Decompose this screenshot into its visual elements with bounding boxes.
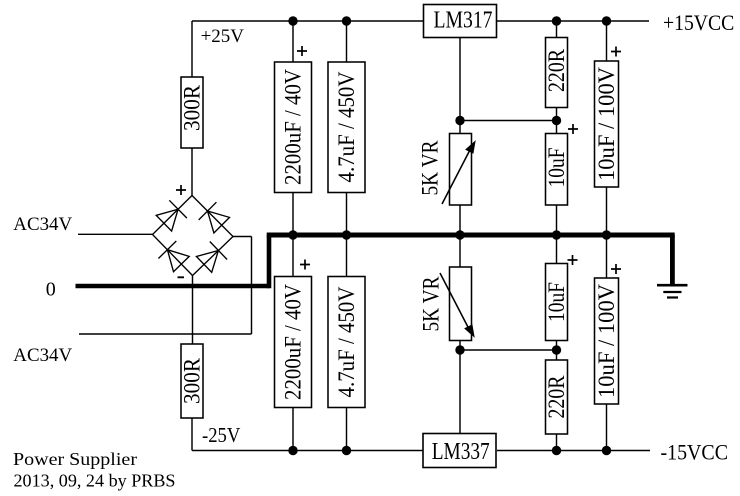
capacitor 10uF/100V (bottom) [594,278,619,404]
svg-text:10uF / 100V: 10uF / 100V [594,67,619,181]
svg-text:-15VCC: -15VCC [661,440,729,465]
capacitor 10uF (bottom) [544,264,569,341]
svg-text:220R: 220R [544,375,569,419]
junction dot top rail at 2200uF [288,16,297,25]
wire AC34V upper input to bridge left vertex [78,233,153,235]
svg-text:+15VCC: +15VCC [663,10,734,35]
wire bottom rail -25V to LM337 input [192,450,423,452]
wire corner down to lower AC line [251,237,253,335]
wire lower node to lower 10uF node [460,349,557,351]
bridge - polarity mark [178,276,185,278]
polarity + of bottom 10uF/100V [611,264,621,274]
svg-text:LM317: LM317 [434,8,493,34]
junction dot bottom rail at 10uF/100V [602,446,611,455]
wire thick riser from 0V line to ground bus [267,235,272,288]
wire thick ground bus [267,233,675,238]
wire lower 10uF top lead to 0V bus [556,238,558,264]
svg-text:5K VR: 5K VR [418,140,443,196]
junction dot upper 220R/10uF node [552,116,561,125]
svg-text:4.7uF / 450V: 4.7uF / 450V [334,71,359,182]
wire top rail LM317 output to +15VCC [497,20,649,22]
wire bottom rail LM337 output to -15VCC [497,450,650,452]
wire 4.7uF/450V bottom lead to 0V bus [346,193,348,234]
resistor 220R (top) [544,38,569,108]
ground symbol stem [670,235,675,284]
wire thick 0V center-tap line [76,284,270,289]
wire 2200uF/40V top lead [292,21,294,62]
junction dot top rail at 4.7uF [342,16,351,25]
wire lower 4.7uF/450V bottom lead [346,408,348,451]
polarity + of top 10uF [568,124,578,134]
ground symbol bar 3 [667,296,678,298]
svg-text:AC34V: AC34V [13,345,72,366]
svg-text:10uF / 100V: 10uF / 100V [594,284,619,398]
wire 300R top lead [191,21,193,77]
svg-text:300R: 300R [180,357,205,404]
junction dot bus at 10uF [552,230,561,239]
wire 10uF bottom to 0V bus [556,205,558,233]
IC LM317 regulator [424,5,497,38]
wire 4.7uF/450V top lead [346,21,348,62]
polarity + of bottom 10uF [568,255,578,265]
capacitor 2200uF/40V (bottom) [275,277,312,408]
junction dot bottom rail at 2200uF [288,446,297,455]
junction dot top rail at 220R [552,16,561,25]
wire ADJ node to 220R/10uF node [460,120,557,122]
wire lower 4.7uF/450V top lead to 0V bus [346,238,348,277]
wire 10uF/100V top lead [606,21,608,61]
junction dot bus at 10uF/100V [602,230,611,239]
capacitor 10uF/100V (top) [594,61,619,187]
bridge diode D4 (- to right AC) [196,242,227,273]
junction dot lower 10uF/220R node [552,345,561,354]
svg-text:10uF: 10uF [544,148,569,188]
polarity + of top 2200uF [297,46,307,56]
wire lower 2200uF/40V top lead to 0V bus [292,238,294,277]
ground symbol bar 1 [657,284,688,287]
wire lower 300R bottom lead to -25V rail [191,418,193,451]
wire top rail +25V from 300R column to LM317 input [192,20,423,22]
svg-text:LM337: LM337 [432,439,490,465]
wire lower 10uF bottom to lower 220R top through node [556,341,558,361]
wire lower 2200uF/40V bottom lead [292,408,294,451]
resistor 300R (top) [180,77,205,148]
svg-text:5K VR: 5K VR [419,276,444,332]
junction dot bottom rail at 220R [552,446,561,455]
capacitor 2200uF/40V (top) [275,62,312,193]
junction dot ADJ node lower left [455,345,464,354]
svg-text:2200uF / 40V: 2200uF / 40V [281,284,306,400]
junction dot bus at 4.7uF [342,230,351,239]
bridge diode D3 (- to left AC) [158,241,189,272]
junction dot top rail at 10uF/100V [602,16,611,25]
junction dot bus at 5K VR [455,230,464,239]
ground symbol bar 2 [663,291,681,293]
wire LM317 ADJ pin down to node [459,38,461,121]
wire lower 5K VR bottom to node [459,341,461,351]
svg-text:2013, 09, 24 by PRBS: 2013, 09, 24 by PRBS [14,471,176,491]
svg-text:2200uF / 40V: 2200uF / 40V [281,69,306,185]
capacitor 4.7uF/450V (bottom) [328,277,365,408]
wire 300R bottom lead to bridge + vertex [191,148,193,196]
svg-text:10uF: 10uF [544,282,569,322]
bridge rectifier diamond outline [153,196,234,276]
polarity + of bottom 2200uF [300,260,310,270]
resistor 300R (bottom) [180,344,205,418]
wire 10uF/100V bottom lead to 0V bus [606,187,608,233]
resistor 220R (bottom) [544,360,569,434]
junction dot bottom rail at 4.7uF [342,446,351,455]
svg-text:220R: 220R [544,48,569,92]
svg-text:Power Supplier: Power Supplier [13,449,137,469]
svg-text:AC34V: AC34V [13,214,72,235]
capacitor 10uF (top) [544,134,569,206]
bridge + polarity mark [176,185,186,195]
potentiometer 5K VR (bottom) [419,267,475,341]
wire 2200uF/40V bottom lead to 0V bus [292,193,294,234]
svg-text:300R: 300R [180,84,205,131]
junction dot ADJ node upper left [455,116,464,125]
capacitor 4.7uF/450V (top) [328,62,365,193]
wire lower 220R bottom lead to -15V rail [556,434,558,451]
IC LM337 regulator [423,434,496,468]
wire bridge - vertex down to lower 300R [192,276,194,345]
svg-text:-25V: -25V [202,423,240,447]
wire node to 5K VR top [459,121,461,134]
junction dot bus at 2200uF [288,230,297,239]
potentiometer 5K VR (top) [418,134,476,206]
svg-text:+25V: +25V [201,26,245,47]
wire lower 5K VR top lead to 0V bus [459,238,461,268]
wire lower 10uF/100V bottom lead to -15V rail [606,404,608,451]
bridge diode D2 (right AC to +) [199,202,230,233]
wire 220R top lead [556,21,558,38]
wire lower ADJ node to LM337 ADJ pin [459,350,461,434]
wire 220R bottom to 10uF top through node [556,108,558,134]
wire 5K VR bottom to 0V bus [459,205,461,233]
wire AC34V lower input line [79,333,252,335]
bridge diode D1 (lower-left AC to +) [156,200,187,231]
wire lower 10uF/100V top lead to 0V bus [606,238,608,279]
polarity + of top 10uF/100V [611,47,621,57]
svg-text:0: 0 [46,279,56,301]
wire bridge right vertex to corner [233,236,252,238]
svg-text:4.7uF / 450V: 4.7uF / 450V [334,286,359,397]
